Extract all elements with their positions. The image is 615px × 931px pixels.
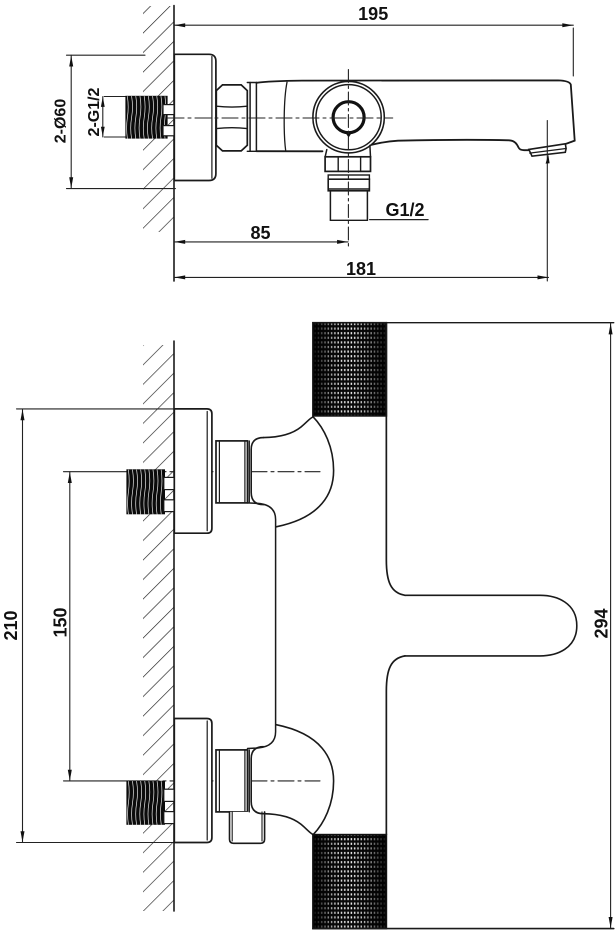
- dimension 2-G1/2 line: [102, 97, 104, 137]
- dimension 195 extension right: [572, 28, 574, 76]
- svg-text:150: 150: [50, 607, 70, 637]
- knob hole: [333, 102, 364, 133]
- extension line to aerator center: [546, 121, 548, 282]
- outlet hex nut (top view): [325, 157, 370, 172]
- bottom threaded nipple (bottom view): [126, 781, 165, 825]
- bottom union ball arc: [276, 725, 333, 835]
- dimension 2-Ø60 line: [70, 55, 72, 188]
- wall face line (bottom view): [173, 341, 175, 911]
- body top edge + 294 extension top: [313, 322, 614, 324]
- top nipple washers: [164, 477, 175, 489]
- G1/2 leader line: [370, 219, 428, 221]
- bottom flange (bottom view): [174, 719, 212, 843]
- dimension 85: [174, 241, 348, 243]
- svg-text:85: 85: [250, 223, 270, 243]
- top union ball top sweep to handle: [264, 417, 314, 438]
- aerator at spout tip (top view): [529, 144, 566, 156]
- nipple washers at wall (top view): [163, 105, 174, 115]
- dimension 150: [69, 472, 71, 781]
- outlet collar sides under knob (top view): [325, 150, 327, 157]
- wall hatch (top view): [143, 6, 174, 232]
- spout tongue (bottom view): [405, 595, 577, 656]
- flange / escutcheon (top view): [174, 54, 216, 180]
- dimension 294: [610, 323, 612, 928]
- dimension 195 line: [174, 24, 573, 26]
- body top edge (top view): [256, 80, 574, 143]
- bottom union ball left face: [251, 747, 263, 814]
- small arrow under aerator: [546, 155, 550, 164]
- svg-text:G1/2: G1/2: [386, 200, 425, 220]
- washer rings before body (top view): [247, 82, 256, 84]
- vertical centerline through knob and outlet (top view): [347, 70, 349, 248]
- shower outlet box under bottom hex: [230, 812, 265, 843]
- extension lines Ø60: [67, 54, 146, 56]
- hex connector nut (top view): [216, 85, 247, 151]
- body bottom edge left (top view): [256, 150, 322, 152]
- outlet thread tube (top view): [329, 191, 331, 221]
- top handle knurl band: [313, 323, 387, 416]
- bottom handle knurl band: [313, 835, 387, 929]
- union axis centerlines (bottom view): [64, 471, 144, 473]
- top flange (bottom view): [174, 409, 212, 533]
- svg-text:294: 294: [592, 608, 612, 638]
- horizontal centerline (top view): [168, 117, 393, 119]
- wall-side body boundary between unions: [248, 503, 276, 749]
- dimension 210: [22, 409, 24, 842]
- knob index notch: [345, 132, 353, 138]
- body bottom edge + 294 extension bottom: [313, 928, 614, 930]
- top union washer ring: [248, 441, 250, 503]
- outlet washer: [328, 175, 369, 179]
- svg-text:181: 181: [346, 259, 376, 279]
- bottom union washer ring: [248, 750, 250, 812]
- knob outer ring (top view): [313, 82, 384, 153]
- svg-text:2-G1/2: 2-G1/2: [86, 87, 103, 136]
- top hex nut (bottom view): [216, 441, 248, 503]
- body near edge line: [386, 323, 405, 596]
- svg-text:210: 210: [1, 610, 21, 640]
- svg-text:2-Ø60: 2-Ø60: [53, 99, 70, 144]
- bottom hex nut (bottom view): [216, 750, 248, 812]
- top threaded nipple (bottom view): [126, 469, 165, 514]
- wall face line (top view): [173, 6, 175, 282]
- outlet cylinder: [328, 179, 369, 191]
- svg-text:195: 195: [358, 4, 388, 24]
- threaded wall nipple (top view): [125, 96, 167, 139]
- knob inner ring: [316, 85, 381, 150]
- bottom union ball bottom sweep to handle: [264, 814, 314, 835]
- body waist curve (top view): [284, 82, 287, 151]
- extension lines G1/2: [104, 96, 126, 98]
- wall hatch (bottom view): [143, 345, 174, 911]
- dimension 195 arrows: [174, 23, 185, 27]
- body bottom edge right / spout underside (top view): [372, 140, 529, 150]
- dimension 181: [174, 276, 549, 278]
- top union ball arc: [276, 417, 333, 527]
- bottom nipple washers: [164, 789, 175, 801]
- top union ball left face: [251, 438, 263, 505]
